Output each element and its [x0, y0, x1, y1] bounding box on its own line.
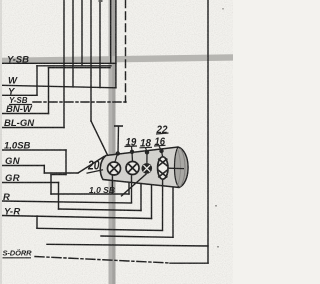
wire BN-W corridor	[49, 67, 111, 69]
stub d3 to bulb3	[146, 152, 148, 163]
wire level 244	[47, 244, 208, 246]
wire riser x129 to housing	[128, 184, 130, 195]
wire bulb4b riser	[162, 179, 164, 231]
contact dot d3	[145, 150, 149, 154]
wire bulb4 to cap	[168, 167, 184, 169]
bulb 16/22 dual filament	[158, 157, 168, 179]
bulb 19 (lamp symbol)	[126, 162, 139, 175]
label 19 underline	[125, 145, 138, 148]
label Y-SB small underline	[9, 104, 32, 106]
wire GR horizontal	[2, 182, 59, 184]
lamp housing body	[100, 147, 188, 188]
label 18 underline	[140, 146, 153, 149]
terminal T crossbar	[114, 125, 123, 127]
terminal T stem	[117, 126, 120, 153]
wire BL-GN horizontal	[2, 127, 64, 129]
wire Y-R horizontal	[2, 216, 152, 219]
wire top vertical x82 (Y riser)	[81, 0, 83, 66]
contact dot d1	[116, 151, 120, 155]
label 20 underline	[87, 170, 104, 174]
wire main right vertical	[207, 0, 209, 263]
wire bulb4a riser	[151, 185, 153, 219]
wire diagonal to housing tip	[91, 121, 108, 155]
wire bulb3 riser	[140, 184, 142, 211]
gray vertical highlight band	[109, 0, 116, 284]
label 16 underline	[154, 144, 166, 147]
wire top vertical x73 (W riser)	[72, 0, 74, 87]
paper background	[0, 0, 233, 284]
wire Y horizontal	[2, 94, 37, 96]
lamp housing left tip arc	[100, 156, 106, 180]
gray horizontal highlight band	[0, 54, 233, 64]
stub d4 to bulb4	[162, 151, 163, 157]
bulb 20 (lamp symbol)	[108, 162, 121, 175]
label S-DORR underline	[3, 257, 32, 259]
wire GR step down	[58, 183, 60, 210]
contact dot d4	[159, 149, 163, 153]
wire bulb1 bottom drop	[111, 174, 113, 195]
stub d2 to bulb2	[131, 152, 134, 162]
wire bulb3 diagonal to ground junction	[121, 174, 147, 197]
stub d1 to bulb1	[115, 154, 118, 163]
left edge scan shading	[0, 0, 2, 284]
wire GN diagonal to housing tip	[78, 157, 104, 174]
wire top vertical x110.7 (main feed)	[110, 0, 112, 63]
wire 1.0SB jog	[51, 174, 66, 176]
wire 1.0SB jog vertical	[50, 175, 52, 195]
wire Y corridor	[37, 65, 111, 67]
contact dot d2	[130, 150, 134, 154]
wire W horizontal	[2, 85, 116, 88]
lamp housing right cap shaded	[175, 147, 189, 188]
wire BN-W step vertical	[48, 68, 50, 114]
wire Y-SB main horizontal	[2, 62, 116, 64]
cap hatch lines	[181, 149, 186, 187]
pointer 16 to d4	[159, 146, 162, 151]
dash-dot Y-SB reference horizontal	[33, 101, 126, 103]
wire 1.0SB horizontal	[2, 149, 66, 151]
wire bulb2 riser	[131, 174, 133, 203]
wire GN step down	[43, 166, 45, 174]
dashed vertical x126 (Y-SB reference)	[125, 0, 127, 102]
wire 1.0SB step down	[65, 150, 67, 175]
bulb 18 (filled lamp symbol)	[142, 163, 153, 174]
wire Y step vertical	[36, 66, 38, 96]
wire level 232	[37, 228, 163, 230]
wire top vertical x91 (BN-W riser)	[90, 0, 92, 121]
wire GN horizontal	[2, 165, 44, 167]
wire top vertical x100	[99, 0, 101, 88]
wire GN level	[44, 172, 78, 174]
wire GR level to bulb3 riser	[59, 209, 142, 211]
wire housing right riser	[172, 187, 174, 238]
label 22 underline	[156, 133, 169, 134]
pointer 19 to d2	[131, 147, 134, 152]
wire Y-SB drop at band	[115, 0, 117, 88]
wire BN-W horizontal	[2, 113, 49, 115]
wire top vertical x64 (BL-GN riser)	[63, 0, 65, 128]
pointer 18 to d3	[146, 148, 148, 153]
wire Y-R jog down	[36, 216, 38, 228]
paper noise overlay	[0, 0, 1, 1]
wire 1.0SB ground level	[51, 193, 129, 195]
wire level 236.5 from band	[101, 236, 173, 237]
wire bottom right horizontal	[170, 262, 208, 264]
scan specks	[99, 0, 103, 2]
wire R horizontal	[2, 201, 132, 203]
dash-dot S-DORR boundary	[35, 257, 170, 264]
